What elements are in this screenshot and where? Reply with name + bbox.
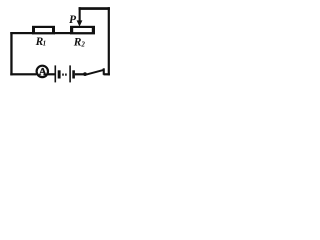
wire bottom-right horizontal (104, 73, 110, 75)
rheostat R2 (70, 26, 95, 35)
battery cell 1 long plate (55, 65, 57, 82)
wire bottom-left horizontal (10, 73, 36, 75)
battery cell 2 short plate (72, 70, 75, 78)
battery cell 2 long plate (69, 65, 71, 82)
switch contact stub (103, 68, 105, 75)
wire top-left horizontal (10, 32, 34, 34)
label R2 (73, 37, 86, 49)
battery dots (62, 74, 64, 76)
slider arrow P stem (79, 7, 81, 21)
label R1 (35, 36, 47, 48)
wire right vertical (108, 7, 110, 75)
switch blade (86, 70, 103, 75)
svg-text:1: 1 (43, 39, 47, 47)
ammeter A (37, 66, 48, 78)
wire between R1 and R2 (54, 32, 71, 34)
slider arrowhead (77, 20, 83, 26)
battery cell 1 short plate (58, 70, 61, 78)
svg-text:2: 2 (80, 40, 85, 48)
wire ammeter right to battery (48, 73, 55, 75)
svg-text:A: A (39, 66, 47, 78)
resistor R1 (32, 26, 55, 35)
svg-text:P: P (69, 14, 77, 26)
wire top-right horizontal (79, 7, 110, 10)
wire left vertical (10, 32, 12, 75)
switch pivot dot (83, 72, 87, 76)
wire battery to switch (75, 73, 84, 75)
